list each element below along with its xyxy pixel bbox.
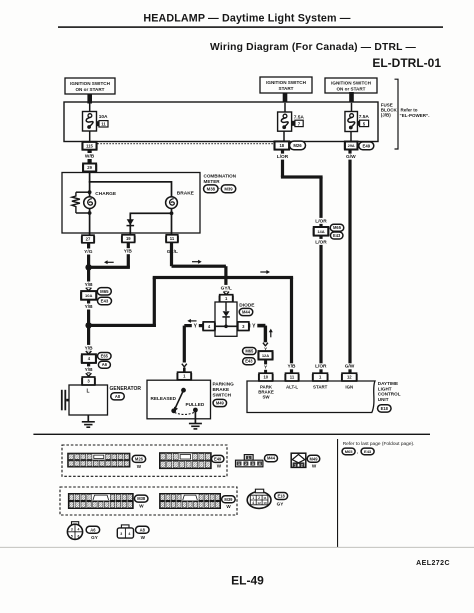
indicator lamp BRAKE	[166, 197, 178, 209]
wire label Y (above pin 10)	[262, 364, 269, 369]
connector 115 (fuse block, W/B out)	[83, 142, 97, 150]
wire: ALT-L riser	[153, 278, 156, 328]
svg-text:E43: E43	[364, 449, 372, 454]
power source box: IGNITION SWITCH START (middle)	[260, 77, 312, 93]
svg-text:M65: M65	[100, 289, 109, 294]
footer faint rule	[0, 546, 474, 548]
svg-text:2: 2	[301, 463, 303, 467]
svg-text:10A: 10A	[85, 293, 92, 298]
svg-text:Y/B: Y/B	[85, 367, 94, 373]
wire label GY/L (pin 11)	[166, 249, 179, 255]
svg-text:START: START	[279, 86, 294, 91]
pin box 7	[292, 121, 295, 126]
node: brake lamp to diode junction	[170, 211, 174, 215]
connector oval E49 (top)	[359, 142, 374, 150]
wire: pulled contact to ground	[195, 410, 197, 424]
connector oval M65 (start)	[330, 224, 344, 231]
wire label Y/B (above connector 4)	[84, 345, 94, 351]
svg-text:L/OR: L/OR	[315, 239, 327, 245]
svg-text:BRAKE: BRAKE	[213, 387, 230, 392]
svg-text:E43: E43	[245, 359, 253, 364]
connector 29 (meter top)	[83, 164, 96, 172]
svg-text:BRAKE: BRAKE	[177, 191, 195, 197]
svg-text:GENERATOR: GENERATOR	[110, 386, 142, 392]
svg-text:1: 1	[238, 462, 240, 466]
svg-text:E43: E43	[101, 299, 109, 304]
continuation arrow (left) on Y/B branch	[104, 260, 108, 264]
svg-text:10: 10	[263, 501, 267, 505]
svg-text:Y/B: Y/B	[85, 304, 94, 310]
svg-text:GY/L: GY/L	[221, 285, 232, 291]
fuse block (J/B) box	[64, 102, 378, 142]
svg-text:L/OR: L/OR	[315, 218, 327, 224]
svg-text:IGN: IGN	[345, 384, 353, 389]
dashed group box (M38/M39)	[60, 487, 237, 515]
resistor R (zigzag)	[72, 192, 80, 213]
resistor (charge lamp shunt) top lead	[76, 191, 90, 193]
chevron into diode pin 1	[224, 292, 228, 295]
svg-text:A6: A6	[102, 362, 108, 367]
combination meter box	[62, 173, 200, 234]
connector oval E43 (park brake)	[243, 358, 256, 365]
wire: GY/L drop to diode	[224, 266, 227, 295]
svg-text:Refer to last page (Foldout pa: Refer to last page (Foldout page).	[343, 441, 415, 447]
svg-text:EL-49: EL-49	[231, 574, 264, 588]
svg-text:E43: E43	[333, 233, 341, 238]
fuse 7.5A (No.7)	[278, 112, 292, 131]
wire: Y/B elbow into junction A	[89, 266, 130, 269]
connector face M39 grid	[160, 494, 221, 509]
switch released contact	[171, 408, 176, 413]
chevron into connector 10A	[87, 288, 91, 291]
svg-text:5: 5	[71, 534, 73, 538]
control unit pin 11	[286, 373, 299, 381]
svg-text:E18: E18	[381, 406, 389, 411]
svg-text:1: 1	[248, 456, 250, 460]
control unit pin 1	[313, 373, 328, 381]
section separator rule	[33, 434, 430, 435]
control unit pin 12	[342, 373, 357, 381]
title underline	[58, 26, 443, 28]
svg-text:Y/B: Y/B	[85, 345, 94, 351]
wire: fuse 7.5A-7 bottom lead	[283, 131, 285, 141]
diode pin 3	[238, 322, 249, 331]
svg-text:CHARGE: CHARGE	[95, 191, 117, 197]
svg-text:Refer to: Refer to	[401, 108, 418, 113]
svg-text:PARKING: PARKING	[213, 381, 235, 386]
svg-text:3: 3	[252, 462, 254, 466]
svg-text:W: W	[226, 504, 231, 509]
svg-text:M26: M26	[135, 456, 144, 461]
svg-text:AEL272C: AEL272C	[416, 560, 450, 567]
connector face M26 grid	[68, 453, 130, 467]
wire: diode pin3 to elbow	[249, 324, 266, 328]
svg-text:10A: 10A	[99, 114, 108, 120]
generator pin 3	[82, 377, 95, 385]
svg-text:M39: M39	[224, 497, 233, 502]
wire: Y/G pin27 down to junction A	[87, 243, 90, 267]
node: diode output junction	[224, 325, 228, 329]
svg-text:(J/B): (J/B)	[381, 113, 392, 118]
wire: middle ignition feed to fuse block	[283, 93, 288, 103]
chevron into connector 4	[87, 351, 91, 354]
node: charge lamp bottom junction	[88, 211, 92, 215]
svg-text:2: 2	[258, 496, 260, 500]
chevron into generator pin 3	[87, 373, 91, 376]
inline connector 14A (M65-E43)	[314, 227, 329, 236]
diode pin 1	[220, 295, 233, 302]
connector face oval M26	[132, 455, 146, 462]
wire: left ignition feed to fuse block	[87, 94, 92, 104]
svg-text:L: L	[86, 388, 89, 394]
meter pin 19	[122, 235, 135, 243]
svg-text:EL-DTRL-01: EL-DTRL-01	[372, 56, 441, 70]
switch travel arc (dashed)	[175, 412, 195, 414]
svg-text:M65: M65	[333, 225, 342, 230]
wire: meter internal bus	[90, 181, 172, 183]
wire: stub to parking brake pin	[183, 368, 186, 373]
meter pin 27	[82, 235, 94, 243]
svg-text:G/W: G/W	[345, 364, 355, 370]
svg-text:METER: METER	[204, 179, 221, 184]
daytime light control unit box	[247, 381, 375, 413]
svg-text:A8: A8	[115, 394, 121, 399]
svg-text:DIODE: DIODE	[239, 302, 255, 308]
chevron into 12A	[263, 343, 268, 346]
power source box: IGNITION SWITCH ON or START (right)	[325, 78, 377, 93]
connector face M38 grid	[69, 494, 134, 509]
diode D1 symbol	[225, 302, 227, 311]
pin box 11	[96, 121, 99, 126]
svg-text:START: START	[313, 384, 328, 389]
svg-text:M44: M44	[242, 309, 251, 314]
fuse 7.5A (No.5)	[345, 112, 358, 132]
svg-text:ON or START: ON or START	[75, 87, 104, 92]
svg-text:M26: M26	[293, 143, 302, 148]
resistor bottom lead	[76, 212, 90, 214]
svg-text:W: W	[312, 464, 317, 469]
svg-text:4: 4	[128, 532, 130, 536]
svg-text:M65: M65	[345, 449, 354, 454]
wire: fuse 10A bottom lead	[89, 131, 91, 142]
svg-text:11: 11	[170, 236, 175, 241]
svg-text:12: 12	[257, 501, 261, 505]
wire: GY/L pin11 down	[170, 242, 173, 266]
svg-text:SWITCH: SWITCH	[213, 392, 232, 397]
svg-text:11: 11	[290, 375, 295, 380]
connector oval E43 (start)	[330, 232, 343, 239]
wire: elbow down toward 12A	[264, 326, 267, 343]
svg-text:G/W: G/W	[346, 154, 356, 160]
wire label Y (right branch)	[250, 323, 257, 329]
dotted connector strip line	[98, 143, 274, 145]
wire label Y/G (pin 27)	[83, 249, 93, 255]
dashed group box (M26/E49)	[62, 445, 227, 476]
ground (generator)	[82, 421, 95, 423]
wire: junction to meter diode	[130, 212, 172, 214]
meter pin 11	[166, 235, 178, 243]
inline connector 12A (M65-E43)	[259, 351, 273, 359]
svg-text:M39: M39	[224, 186, 233, 191]
wire: right ignition feed to fuse block	[349, 92, 354, 103]
svg-text:1: 1	[294, 463, 296, 467]
svg-text:2: 2	[245, 462, 247, 466]
wire label L/OR (below fuse block)	[276, 154, 289, 160]
switch common contact	[181, 388, 186, 393]
wire label Y (above 12A)	[262, 347, 269, 352]
connector 18 with M26 (L/OR out)	[275, 141, 290, 149]
connector face oval M44	[265, 455, 278, 462]
node A (junction dot)	[85, 264, 91, 270]
parking brake switch box	[147, 380, 211, 419]
svg-text:IGNITION SWITCH: IGNITION SWITCH	[70, 81, 110, 86]
svg-text:29: 29	[87, 165, 92, 170]
svg-text:14A: 14A	[317, 229, 324, 234]
parking brake switch pin 1	[178, 372, 192, 380]
wire: GY/L elbow right	[172, 265, 226, 268]
svg-text:4: 4	[77, 528, 79, 532]
svg-text:L/OR: L/OR	[277, 154, 289, 160]
wire: meter feed vertical	[89, 172, 91, 193]
switch blade (released position)	[175, 390, 183, 408]
wire label Y/B (below inline connector)	[84, 304, 94, 310]
svg-text:L/OR: L/OR	[315, 364, 327, 370]
svg-text:Y/B: Y/B	[124, 249, 133, 255]
connector oval M49 (top)	[213, 399, 227, 406]
wire label Y/B (above inline connector)	[84, 282, 94, 288]
connector face E49 grid	[160, 453, 212, 469]
connector face oval M38	[134, 495, 148, 502]
connector oval A6 (inline)	[98, 361, 110, 368]
svg-text:M44: M44	[267, 456, 276, 461]
wire: ALT-L horizontal	[153, 276, 293, 279]
svg-text:M65: M65	[245, 348, 254, 353]
svg-text:11: 11	[101, 122, 106, 127]
wire: W/B fuse block to meter	[88, 150, 92, 163]
node B (junction dot)	[85, 322, 91, 328]
wire: inline connector down to junction B	[87, 300, 90, 326]
svg-text:IGNITION SWITCH: IGNITION SWITCH	[266, 80, 306, 85]
svg-text:3: 3	[71, 528, 73, 532]
svg-text:M38: M38	[207, 186, 216, 191]
svg-text:M38: M38	[137, 496, 146, 501]
svg-text:4: 4	[259, 462, 261, 466]
wire: 12A to control unit pin 10	[264, 360, 267, 374]
connector oval E43 (left chain)	[98, 297, 112, 304]
wire: Y/B pin19 down	[127, 242, 130, 267]
connector face A6	[72, 522, 79, 526]
svg-text:W: W	[137, 464, 142, 469]
wire: fuse 7.5A-5 top lead	[351, 103, 353, 112]
connector oval M26 (top)	[290, 141, 306, 150]
svg-text:Y/B: Y/B	[85, 282, 94, 288]
wire: L/OR elbow	[281, 175, 323, 178]
wire: junction B down to generator	[87, 325, 90, 377]
svg-text:W/B: W/B	[85, 153, 95, 159]
svg-text:M49: M49	[216, 400, 225, 405]
svg-text:12A: 12A	[262, 353, 269, 358]
power source box: IGNITION SWITCH ON or START (left)	[65, 78, 115, 94]
continuation arrow (left) diode branch	[187, 319, 191, 323]
wire label L/OR (above 14A)	[315, 218, 328, 224]
wire: L/OR from connector 18	[281, 150, 284, 177]
wire label G/W (below fuse block)	[346, 154, 356, 160]
wire: junction B to riser	[89, 324, 156, 327]
svg-text:GY: GY	[277, 502, 284, 507]
wire: diode pin4 to elbow	[184, 324, 203, 327]
svg-text:A6: A6	[90, 527, 96, 532]
svg-text:18: 18	[279, 143, 284, 148]
svg-text:A8: A8	[140, 527, 146, 532]
svg-text:GY: GY	[91, 535, 98, 540]
wire: elbow down to parking brake switch	[183, 326, 186, 363]
wire label L/OR (below 14A)	[315, 239, 328, 245]
svg-text:ALT-L: ALT-L	[286, 384, 298, 389]
svg-text:RELEASED: RELEASED	[151, 396, 177, 401]
connector face oval E49	[211, 455, 224, 462]
svg-text:UNIT: UNIT	[378, 397, 389, 402]
svg-text:“EL-POWER”.: “EL-POWER”.	[400, 113, 430, 118]
note ovals M65 E43	[342, 448, 355, 455]
svg-text:115: 115	[86, 143, 93, 148]
svg-text:W: W	[217, 463, 222, 468]
wire label Y/B (above generator)	[84, 366, 94, 372]
wire: G/W from connector 29A	[348, 150, 351, 374]
svg-text:29A: 29A	[348, 144, 355, 148]
wire label Y/B (pin 19)	[123, 248, 133, 254]
wire: brake lamp drop	[171, 181, 173, 235]
wire: fuse 10A top lead	[89, 103, 91, 112]
connector face oval A6	[86, 526, 100, 533]
svg-text:E49: E49	[362, 143, 370, 148]
inline connector 10A (M65-E43)	[81, 291, 96, 300]
diode M44 box	[215, 302, 237, 336]
diode pin 4	[203, 322, 215, 331]
wire label W/B	[85, 153, 95, 159]
wire: fuse 7.5A-7 top lead	[284, 103, 286, 112]
svg-text:COMBINATION: COMBINATION	[204, 174, 237, 179]
continuation arrow (right) on GY/L	[198, 260, 202, 264]
ground (parking brake switch)	[189, 423, 202, 425]
control unit pin 10	[259, 373, 273, 381]
wire: junction A down to inline connector	[87, 267, 90, 291]
wire label Y (left branch)	[192, 323, 199, 329]
connector oval M44 (top)	[239, 308, 253, 315]
svg-text:27: 27	[86, 237, 91, 242]
connector oval A8 (generator)	[111, 393, 125, 400]
svg-text:Y/G: Y/G	[84, 249, 93, 255]
wire label Y/B (above pin 11)	[287, 363, 297, 369]
svg-text:11: 11	[263, 496, 267, 500]
generator pulley	[61, 390, 63, 411]
svg-text:PULLED: PULLED	[186, 402, 205, 407]
svg-text:6: 6	[77, 534, 79, 538]
wire: generator to ground	[87, 415, 89, 422]
connector face A8	[121, 525, 129, 529]
connector face oval E18	[275, 493, 288, 500]
connector face oval M39	[222, 496, 236, 503]
svg-text:IGNITION SWITCH: IGNITION SWITCH	[331, 81, 371, 86]
svg-text:ON or START: ON or START	[336, 87, 365, 92]
inline connector 4 (E65-A6)	[82, 354, 96, 363]
meter connector ovals M38 M39	[204, 185, 219, 193]
svg-text:Y/B: Y/B	[288, 364, 297, 370]
vertical rule (notes column)	[337, 439, 338, 547]
svg-text:W: W	[141, 535, 146, 540]
generator box	[69, 385, 108, 415]
svg-text:10: 10	[263, 375, 268, 380]
connector oval M65 (park brake)	[243, 348, 256, 355]
connector face M49 (park brake switch)	[291, 453, 306, 467]
fuse 10A (No.11)	[83, 112, 97, 132]
svg-text:HEADLAMP — Daytime Light Syste: HEADLAMP — Daytime Light System —	[143, 13, 350, 25]
connector face M44 (diode)	[244, 455, 253, 461]
connector oval E65	[98, 353, 112, 360]
svg-text:1: 1	[252, 496, 254, 500]
connector face oval A8	[136, 526, 150, 533]
svg-text:E18: E18	[277, 493, 285, 498]
svg-text:7.5A: 7.5A	[359, 114, 370, 120]
svg-text:4: 4	[252, 501, 254, 505]
svg-text:W: W	[139, 504, 144, 509]
bracket for fuse block note	[395, 79, 399, 149]
svg-text:19: 19	[126, 236, 131, 241]
continuation arrow (right) on ALT-L	[266, 270, 270, 274]
svg-text:E65: E65	[101, 353, 109, 358]
connector face E18	[247, 492, 271, 509]
meter diode (to pin 19)	[129, 213, 131, 235]
svg-text:E49: E49	[214, 456, 222, 461]
svg-text:Wiring Diagram (For Canada) —: Wiring Diagram (For Canada) — DTRL —	[210, 42, 417, 53]
connector oval M65 (left chain)	[97, 288, 111, 295]
node: charge lamp top junction	[88, 190, 92, 194]
svg-text:SW: SW	[262, 394, 270, 399]
wire label G/W (above pin 12)	[345, 363, 355, 369]
wire: ALT-L drop to pin 11	[290, 278, 293, 374]
connector 29A with E49 (G/W out)	[345, 142, 358, 150]
svg-text:M49: M49	[310, 456, 319, 461]
connector face oval M49	[307, 455, 320, 462]
continuation arrow (up)	[269, 329, 273, 333]
pin box 5	[357, 121, 360, 126]
indicator lamp CHARGE	[84, 197, 96, 209]
wire: fuse 7.5A-5 bottom lead	[350, 132, 352, 142]
svg-text:3: 3	[120, 532, 122, 536]
wire: charge lamp vertical	[89, 192, 91, 235]
switch pulled contact	[193, 408, 198, 413]
wire: L/OR drop to pin 1	[319, 177, 322, 373]
chevron into parking brake pin	[182, 364, 187, 367]
wire label L/OR (above pin 1)	[314, 363, 327, 369]
wire label GY/L (above diode)	[220, 285, 233, 291]
svg-text:12: 12	[347, 375, 352, 380]
connector oval E18 (control unit)	[378, 405, 392, 412]
